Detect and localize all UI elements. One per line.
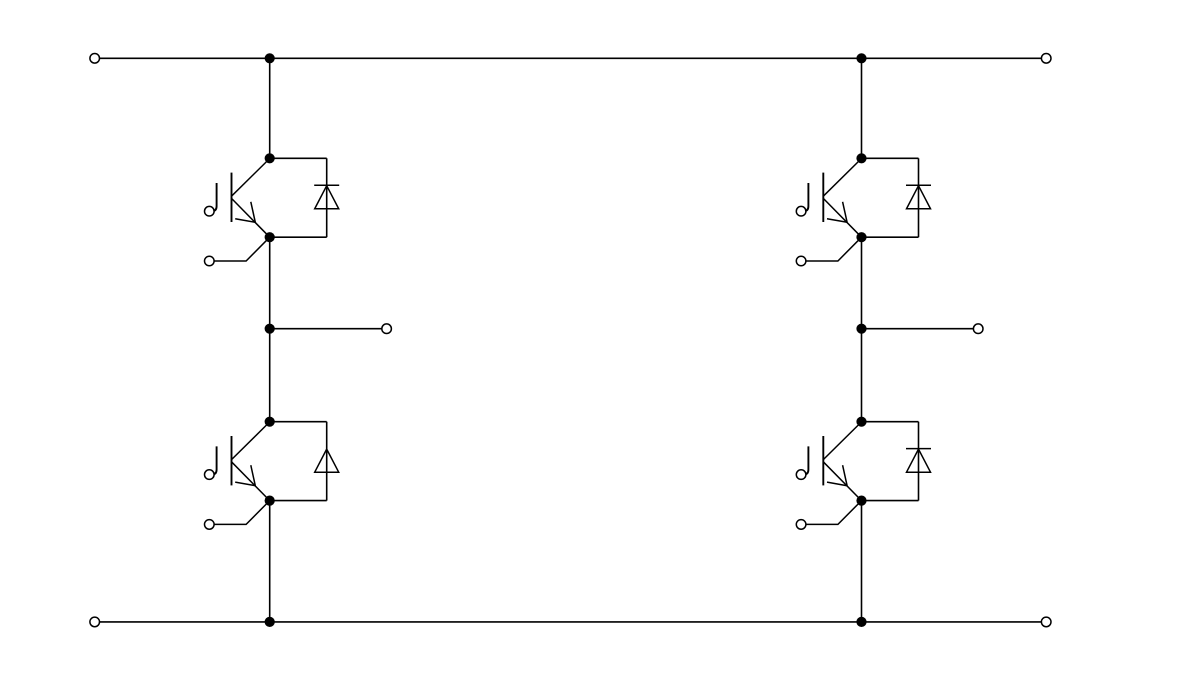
diode D2 (freewheeling, anode down) bbox=[315, 449, 339, 472]
node gate terminal of Q1 bbox=[205, 206, 215, 216]
transistor Q2 (IGBT) bbox=[212, 422, 270, 501]
node DC+ terminal left bbox=[90, 54, 100, 64]
node auxiliary-emitter terminal of Q4 bbox=[796, 520, 806, 530]
junction left leg / top rail bbox=[265, 53, 275, 63]
node left phase terminal bbox=[382, 324, 392, 334]
node gate terminal of Q2 bbox=[205, 470, 215, 480]
node DC+ terminal right bbox=[1041, 54, 1051, 64]
node gate terminal of Q3 bbox=[796, 206, 806, 216]
node DC- terminal left bbox=[90, 617, 100, 627]
junction Q4 emitter bbox=[856, 496, 866, 506]
node DC- terminal right bbox=[1041, 617, 1051, 627]
junction Q3 collector bbox=[856, 153, 866, 163]
wire diode branch of D1 bbox=[270, 158, 327, 237]
wire auxiliary-emitter lead of Q2 bbox=[214, 501, 270, 525]
wire auxiliary-emitter lead of Q1 bbox=[214, 237, 270, 261]
wire left leg: Q1 emitter to phase node bbox=[269, 237, 271, 329]
wire diode branch of D4 bbox=[862, 422, 919, 501]
wire left leg: top rail to Q1 collector bbox=[269, 58, 271, 158]
wire auxiliary-emitter lead of Q4 bbox=[806, 501, 862, 525]
junction Q1 emitter bbox=[265, 232, 275, 242]
junction Q3 emitter bbox=[856, 232, 866, 242]
diode D4 (freewheeling, anode down) bbox=[906, 449, 931, 473]
wire bottom DC bus rail bbox=[95, 621, 1046, 623]
wire left leg: Q2 emitter to bottom rail bbox=[269, 501, 271, 622]
wire auxiliary-emitter lead of Q3 bbox=[806, 237, 862, 261]
junction Q4 collector bbox=[856, 417, 866, 427]
junction right phase node bbox=[856, 324, 866, 334]
wire diode branch of D3 bbox=[862, 158, 919, 237]
node gate terminal of Q4 bbox=[796, 470, 806, 480]
wire right leg: Q3 emitter to phase node bbox=[861, 237, 863, 329]
diode D1 (freewheeling, anode down) bbox=[314, 185, 339, 209]
node auxiliary-emitter terminal of Q1 bbox=[205, 256, 215, 266]
wire diode branch of D2 bbox=[270, 422, 327, 501]
wire right phase output bbox=[862, 328, 979, 330]
wire right leg: top rail to Q3 collector bbox=[861, 58, 863, 158]
wire right leg: phase node to Q4 collector bbox=[861, 329, 863, 422]
wire right leg: Q4 emitter to bottom rail bbox=[861, 501, 863, 622]
junction Q2 collector bbox=[265, 417, 275, 427]
wire left leg: phase node to Q2 collector bbox=[269, 329, 271, 422]
node auxiliary-emitter terminal of Q3 bbox=[796, 256, 806, 266]
wire left phase output bbox=[270, 328, 387, 330]
junction right leg / top rail bbox=[856, 53, 866, 63]
wire top DC bus rail bbox=[95, 57, 1046, 59]
junction Q2 emitter bbox=[265, 496, 275, 506]
node right phase terminal bbox=[973, 324, 983, 334]
node auxiliary-emitter terminal of Q2 bbox=[205, 520, 215, 530]
transistor Q3 (IGBT) bbox=[803, 159, 861, 238]
junction left leg / bottom rail bbox=[265, 617, 275, 627]
transistor Q4 (IGBT) bbox=[803, 422, 861, 501]
junction right leg / bottom rail bbox=[856, 617, 866, 627]
junction left phase node bbox=[265, 324, 275, 334]
diode D3 (freewheeling, anode down) bbox=[906, 185, 931, 209]
junction Q1 collector bbox=[265, 153, 275, 163]
transistor Q1 (IGBT) bbox=[212, 159, 270, 238]
